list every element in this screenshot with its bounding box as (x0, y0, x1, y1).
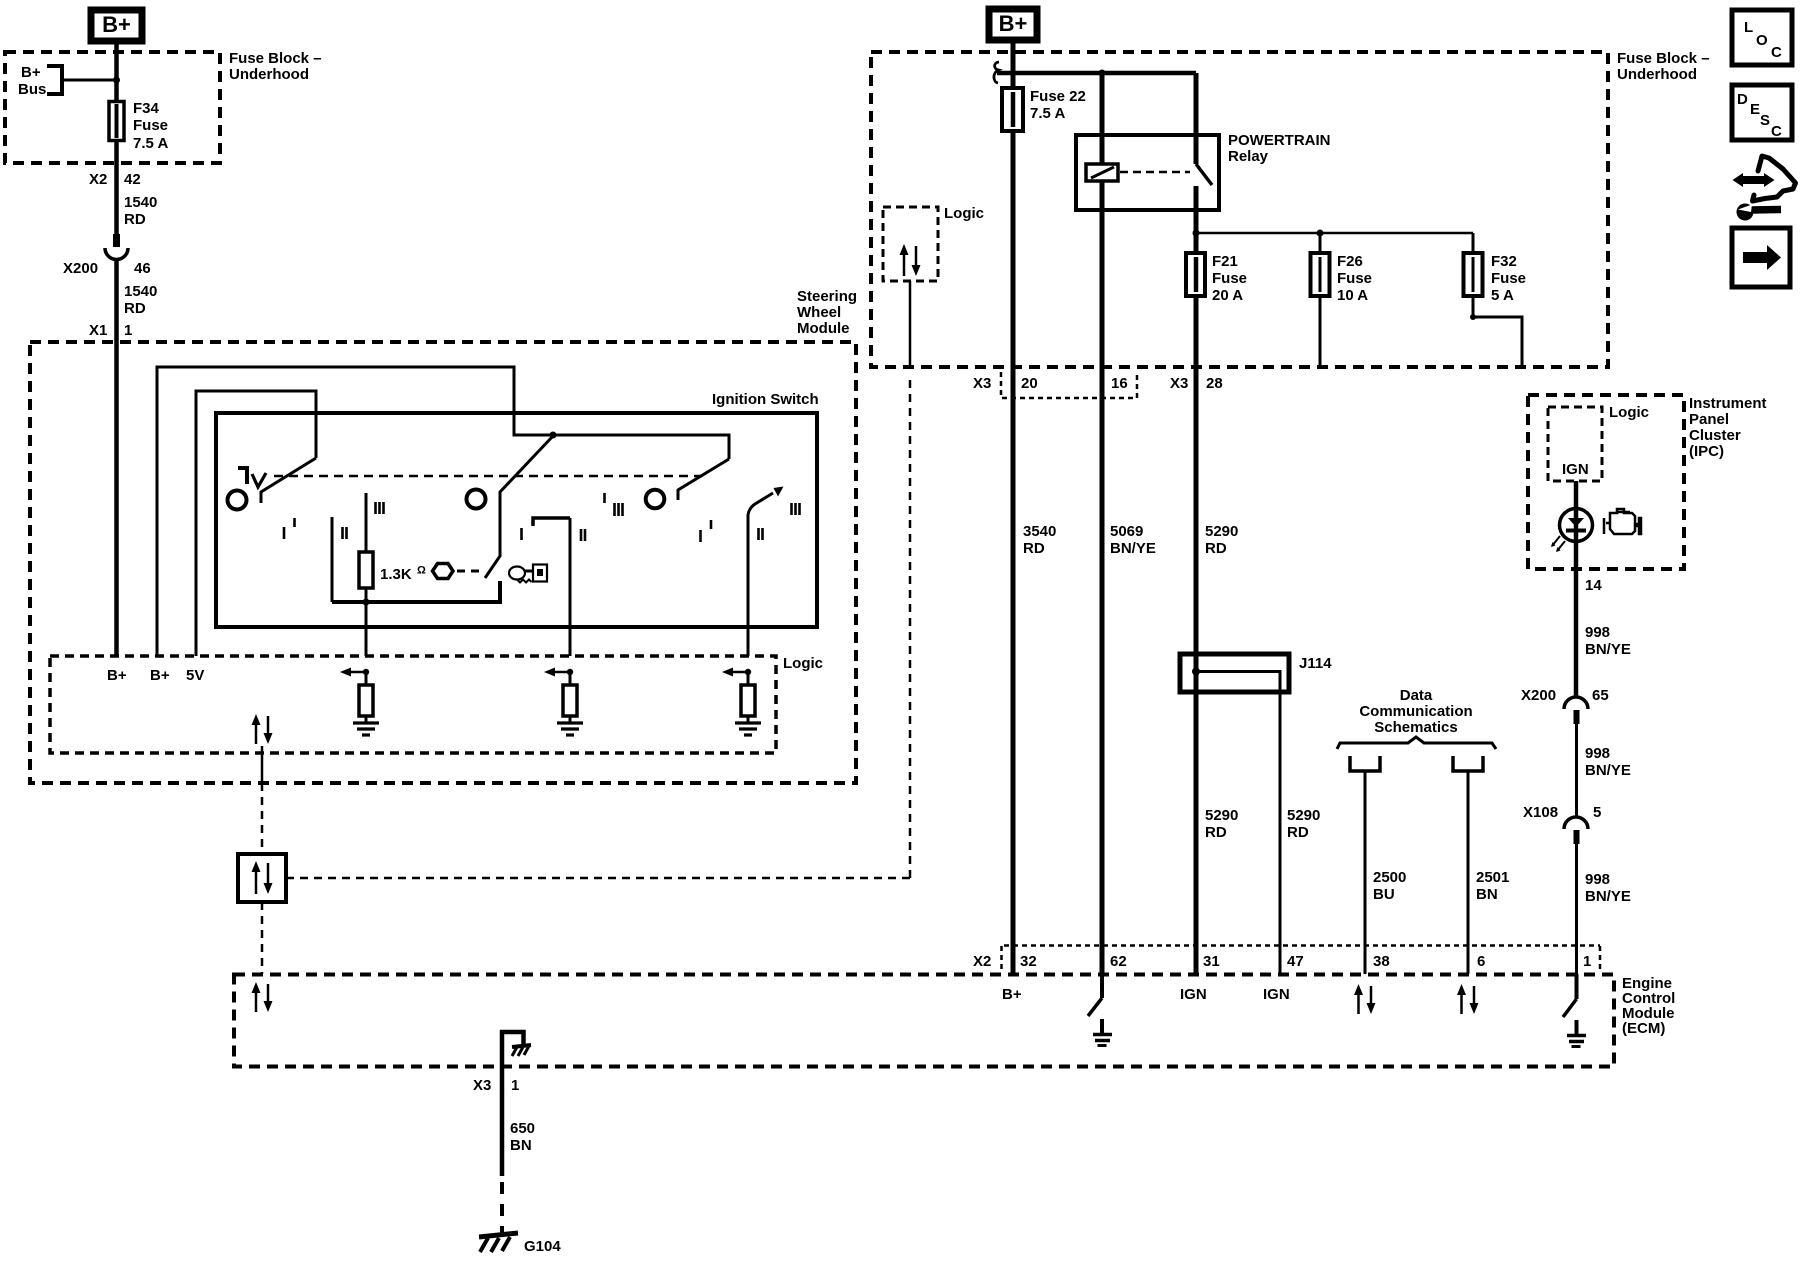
svg-text:L: L (1744, 19, 1753, 36)
node relay output junction (1193, 230, 1200, 237)
pull-down resistor 3 with arrow and ground (722, 668, 761, 736)
node junction at F26 (1317, 230, 1324, 237)
svg-text:X1: X1 (89, 322, 107, 339)
wire fuse F34 to X200 (114, 142, 119, 234)
inline connector X200 pin 46 (63, 234, 151, 277)
svg-text:1: 1 (1583, 953, 1591, 970)
mechanical link dashed line (274, 475, 702, 478)
svg-text:Ω: Ω (417, 565, 426, 577)
wire J114 to ECM pin 47 (1279, 692, 1282, 974)
SECTION: steering wheel module (30, 288, 910, 974)
node junction at coil branch (1099, 70, 1106, 77)
node labels B+ IGN IGN (1002, 986, 1290, 1003)
svg-text:38: 38 (1373, 953, 1390, 970)
wire indicator to IPC pin 14 (1574, 569, 1579, 697)
label Steering Wheel Module (797, 288, 857, 337)
svg-text:B+: B+ (150, 667, 170, 684)
svg-text:14: 14 (1585, 577, 1602, 594)
dashed wire to G104 (500, 1182, 504, 1234)
svg-text:998: 998 (1585, 624, 1610, 641)
switch pole 1 blade (261, 458, 316, 503)
pull-down resistor 1 with arrow and ground (340, 668, 379, 736)
svg-text:650: 650 (510, 1120, 535, 1137)
svg-text:B+: B+ (21, 64, 41, 81)
label Instrument Panel Cluster (IPC) (1689, 395, 1767, 460)
wire labels 5290 RD / 5290 RD (1205, 807, 1320, 841)
serial data arrows at pin 6 (1457, 984, 1479, 1014)
wire relay output down to ECM pin 31 (1194, 186, 1199, 974)
svg-text:Fuse: Fuse (1212, 270, 1247, 287)
svg-text:Fuse Block –: Fuse Block – (1617, 50, 1710, 67)
wire bus to relay branches (997, 71, 1196, 76)
wire IGN to indicator (1574, 481, 1579, 569)
svg-text:Logic: Logic (783, 655, 823, 672)
wire label 998 BN/YE (2) (1585, 745, 1631, 779)
svg-text:7.5 A: 7.5 A (1030, 105, 1065, 122)
svg-text:3540: 3540 (1023, 523, 1056, 540)
connector row X3 20 16 28 (973, 372, 1223, 398)
svg-text:998: 998 (1585, 871, 1610, 888)
label Engine Control Module (ECM) (1622, 975, 1675, 1037)
pin label X1 1 (89, 322, 132, 339)
dashed wire interface box to ECM (261, 902, 264, 974)
connector row tick pin1 (1599, 946, 1602, 970)
svg-text:1540: 1540 (124, 194, 157, 211)
icon diagnostic arrows and wrench (1733, 156, 1796, 221)
switch pole 3 blade (678, 459, 729, 500)
wire label 1540 RD (124, 194, 157, 228)
fuse block underhood (middle) dashed box (871, 52, 1608, 367)
ground G104 (479, 1233, 561, 1255)
wire labels 3540 RD / 5069 BN-YE / 5290 RD (1023, 523, 1238, 557)
wire serial data down through module edge (261, 746, 264, 783)
svg-text:Fuse: Fuse (1491, 270, 1526, 287)
wire coil feed down (1100, 73, 1105, 974)
numerals pole 3: I' II III (701, 503, 800, 542)
ECM ground stub to G104 (502, 1032, 531, 1066)
svg-text:X3: X3 (473, 1077, 491, 1094)
svg-text:RD: RD (1287, 824, 1309, 841)
splice curl symbol (994, 62, 999, 83)
relay contact blade (1196, 164, 1212, 185)
svg-text:IGN: IGN (1263, 986, 1290, 1003)
svg-text:B+: B+ (107, 667, 127, 684)
svg-text:BN/YE: BN/YE (1585, 641, 1631, 658)
svg-text:X108: X108 (1523, 804, 1558, 821)
power symbol B+ (top left) (91, 10, 142, 41)
svg-text:Module: Module (797, 320, 850, 337)
power symbol B+ (top middle) (989, 9, 1037, 40)
wire B+ input (X1 pin 1 to logic) (114, 342, 119, 656)
wire label 998 BN/YE (3) (1585, 871, 1631, 905)
resistor 1.3K ohm (359, 493, 426, 656)
switch pole 2 contact I hook (533, 518, 570, 526)
svg-text:BN/YE: BN/YE (1110, 540, 1156, 557)
svg-text:32: 32 (1020, 953, 1037, 970)
svg-text:RD: RD (1205, 540, 1227, 557)
svg-text:X2: X2 (89, 171, 107, 188)
svg-text:Underhood: Underhood (229, 66, 309, 83)
fuse F32 5A (1464, 233, 1527, 317)
pin labels X2 32 62 31 47 38 6 1 (973, 953, 1591, 970)
switch pole 3 wiper arrow (748, 487, 784, 521)
wire label 1540 RD (2) (124, 283, 157, 317)
wire F32 output jog (1470, 314, 1522, 367)
check engine icon (1604, 509, 1641, 534)
wire X200 to X108 (1575, 724, 1578, 817)
icon box LOC (1732, 10, 1792, 65)
dashed wire to interface box (261, 783, 264, 854)
brace over data links (1337, 737, 1496, 749)
SECTION: IPC (1521, 395, 1767, 974)
logic dashed box (IPC) (1548, 407, 1602, 481)
wire relay contact feed down (1194, 73, 1199, 164)
fuse F21 20A (1186, 253, 1247, 304)
svg-text:X200: X200 (63, 260, 98, 277)
svg-text:Fuse: Fuse (1337, 270, 1372, 287)
serial data arrows (fuse block logic) (900, 244, 921, 276)
svg-text:B+: B+ (102, 12, 131, 37)
powertrain relay box (1076, 135, 1219, 210)
svg-text:B+: B+ (999, 11, 1028, 36)
relay coil (1086, 164, 1118, 181)
svg-text:1.3K: 1.3K (380, 566, 412, 583)
switch pole 2 pivot contact (467, 490, 486, 509)
label Data Communication Schematics (1359, 687, 1472, 736)
switch pole 2 blade with key contact (485, 436, 553, 578)
icon box arrow (next page) (1732, 228, 1790, 287)
wire B+ box to fuse block (114, 44, 119, 100)
wire label 998 BN/YE (1585, 624, 1631, 658)
inline connector X108 pin 5 (1523, 804, 1601, 844)
ECM connector row dotted line (1004, 944, 1600, 947)
steering wheel module dashed box (30, 342, 856, 783)
svg-text:IGN: IGN (1180, 986, 1207, 1003)
ignition switch box (216, 413, 817, 627)
svg-text:31: 31 (1203, 953, 1220, 970)
svg-text:Data: Data (1400, 687, 1433, 704)
svg-text:D: D (1737, 91, 1748, 108)
svg-text:RD: RD (124, 300, 146, 317)
wire to branch fuses (1196, 232, 1473, 235)
logic dashed box (SWM) (50, 656, 776, 753)
svg-text:IGN: IGN (1562, 461, 1589, 478)
fuse 22 7.5A (1002, 88, 1086, 131)
svg-text:998: 998 (1585, 745, 1610, 762)
wire logic box down to fuse block edge (909, 281, 912, 367)
numerals pole 1: I' II III (284, 502, 384, 539)
serial data interface box (238, 854, 286, 902)
svg-text:X3: X3 (973, 375, 991, 392)
pull-down resistor 2 with arrow and ground (544, 668, 583, 736)
svg-text:BN/YE: BN/YE (1585, 762, 1631, 779)
svg-text:X3: X3 (1170, 375, 1188, 392)
svg-text:Schematics: Schematics (1374, 719, 1457, 736)
label POWERTRAIN Relay (1228, 132, 1331, 165)
dashed wire interface box to fuse block logic (286, 877, 910, 880)
svg-text:Logic: Logic (1609, 404, 1649, 421)
switch pole 3 pivot contact (646, 490, 665, 509)
ECM internal ground at pin 1 (1563, 974, 1586, 1047)
relay dashed actuator link (1120, 171, 1190, 174)
svg-text:F26: F26 (1337, 253, 1363, 270)
wire labels 2500 BU / 2501 BN (1373, 869, 1509, 903)
wire ECM to G104 (500, 1066, 505, 1176)
switch pole 1 pivot contact (228, 491, 247, 510)
wire 5V internal feed to switch pole 1 (196, 391, 316, 656)
wire pole 1 contact II (331, 517, 334, 602)
svg-text:20: 20 (1021, 375, 1038, 392)
wire X108 to ECM pin 1 (1575, 844, 1578, 974)
ECM internal ground at pin 62 (1088, 974, 1112, 1046)
svg-text:G104: G104 (524, 1238, 561, 1255)
inline connector X200 pin 65 (1521, 687, 1609, 724)
switch pole 1 position mark (238, 468, 266, 487)
svg-text:RD: RD (1205, 824, 1227, 841)
pin label X3 1 (473, 1077, 519, 1094)
connector row tick X2 (1000, 946, 1003, 970)
svg-text:42: 42 (124, 171, 141, 188)
ignition key icon (509, 565, 547, 583)
SECTION: left B+ feed (5, 10, 322, 342)
svg-text:C: C (1771, 44, 1782, 61)
svg-text:Relay: Relay (1228, 148, 1269, 165)
svg-text:BU: BU (1373, 886, 1395, 903)
wire B+ down to fuse 22 and ECM pin 32 (1011, 43, 1016, 974)
svg-text:X200: X200 (1521, 687, 1556, 704)
wire pole 3 output (747, 519, 750, 656)
data link connector 1 (1350, 756, 1380, 974)
SECTION: middle fuse block (871, 9, 1710, 974)
numerals pole 2: I II 'III (522, 493, 623, 541)
svg-text:S: S (1760, 112, 1770, 129)
node junction on B+ feed (550, 432, 557, 439)
svg-text:Wheel: Wheel (797, 304, 841, 321)
label Fuse Block - Underhood (right) (1617, 50, 1710, 83)
wire B+ internal feed to switch poles 2,3 (157, 367, 729, 656)
svg-text:Panel: Panel (1689, 411, 1729, 428)
svg-text:C: C (1771, 123, 1782, 140)
svg-text:F21: F21 (1212, 253, 1238, 270)
svg-text:Fuse Block –: Fuse Block – (229, 50, 322, 67)
svg-text:F34: F34 (133, 100, 160, 117)
svg-text:7.5 A: 7.5 A (133, 135, 168, 152)
svg-text:5: 5 (1593, 804, 1601, 821)
svg-text:1540: 1540 (124, 283, 157, 300)
svg-text:(ECM): (ECM) (1622, 1020, 1665, 1037)
fuse F26 10A (1311, 233, 1373, 367)
svg-text:Ignition Switch: Ignition Switch (712, 391, 819, 408)
node junction resistor to bottom rail (363, 599, 370, 606)
svg-text:Communication: Communication (1359, 703, 1472, 720)
svg-text:BN/YE: BN/YE (1585, 888, 1631, 905)
svg-text:RD: RD (124, 211, 146, 228)
svg-text:10 A: 10 A (1337, 287, 1368, 304)
svg-text:Bus: Bus (18, 81, 46, 98)
svg-text:1: 1 (511, 1077, 519, 1094)
pin label X2 42 (89, 171, 141, 188)
engine control module dashed box (234, 975, 1614, 1067)
svg-text:F32: F32 (1491, 253, 1517, 270)
svg-text:Cluster: Cluster (1689, 427, 1741, 444)
svg-text:20 A: 20 A (1212, 287, 1243, 304)
svg-text:65: 65 (1592, 687, 1609, 704)
dashed link hexagon to key blade (457, 570, 481, 573)
svg-text:1: 1 (124, 322, 132, 339)
node B+ Bus (18, 64, 120, 98)
ignition key cylinder hexagon (433, 564, 454, 579)
svg-text:5290: 5290 (1205, 523, 1238, 540)
svg-text:Fuse 22: Fuse 22 (1030, 88, 1086, 105)
serial data arrows inside ECM (left) (252, 982, 273, 1012)
svg-text:Instrument: Instrument (1689, 395, 1767, 412)
logic dashed box (fuse block) (883, 207, 938, 281)
svg-text:Steering: Steering (797, 288, 857, 305)
svg-text:47: 47 (1287, 953, 1304, 970)
svg-text:28: 28 (1206, 375, 1223, 392)
indicator LED (1551, 509, 1593, 553)
fuse F34 7.5A (109, 100, 168, 152)
splice block J114 (1180, 654, 1332, 692)
fuse block underhood (left) dashed box (5, 52, 220, 163)
svg-text:16: 16 (1111, 375, 1128, 392)
key switch fixed contact (332, 581, 500, 602)
svg-text:5 A: 5 A (1491, 287, 1514, 304)
svg-text:6: 6 (1477, 953, 1485, 970)
svg-text:BN: BN (1476, 886, 1498, 903)
svg-text:Fuse: Fuse (133, 117, 168, 134)
svg-text:Logic: Logic (944, 205, 984, 222)
svg-text:O: O (1756, 32, 1768, 49)
svg-text:RD: RD (1023, 540, 1045, 557)
svg-text:2500: 2500 (1373, 869, 1406, 886)
svg-text:5V: 5V (186, 667, 204, 684)
wire pole 2 output (569, 518, 572, 656)
svg-text:46: 46 (134, 260, 151, 277)
SECTION: corner icons (1732, 10, 1796, 287)
serial data arrows (SWM logic) (252, 714, 273, 744)
svg-text:X2: X2 (973, 953, 991, 970)
wire X200 to X1 (114, 260, 119, 343)
labels B+ B+ 5V (107, 667, 204, 684)
svg-text:62: 62 (1110, 953, 1127, 970)
svg-text:J114: J114 (1299, 655, 1332, 672)
svg-text:B+: B+ (1002, 986, 1022, 1003)
svg-text:POWERTRAIN: POWERTRAIN (1228, 132, 1331, 149)
svg-text:E: E (1750, 101, 1760, 118)
svg-text:2501: 2501 (1476, 869, 1509, 886)
svg-text:(IPC): (IPC) (1689, 443, 1724, 460)
svg-text:5290: 5290 (1205, 807, 1238, 824)
svg-text:BN: BN (510, 1137, 532, 1154)
serial data arrows at pin 38 (1354, 984, 1376, 1014)
svg-text:Underhood: Underhood (1617, 66, 1697, 83)
SECTION: ECM (234, 946, 1675, 1256)
wire label 650 BN (510, 1120, 535, 1154)
instrument panel cluster dashed box (1528, 395, 1684, 569)
label Fuse Block - Underhood (left) (229, 50, 322, 83)
icon box DESC (1732, 85, 1792, 140)
svg-text:5290: 5290 (1287, 807, 1320, 824)
data link connector 2 (1453, 756, 1483, 974)
svg-text:5069: 5069 (1110, 523, 1143, 540)
